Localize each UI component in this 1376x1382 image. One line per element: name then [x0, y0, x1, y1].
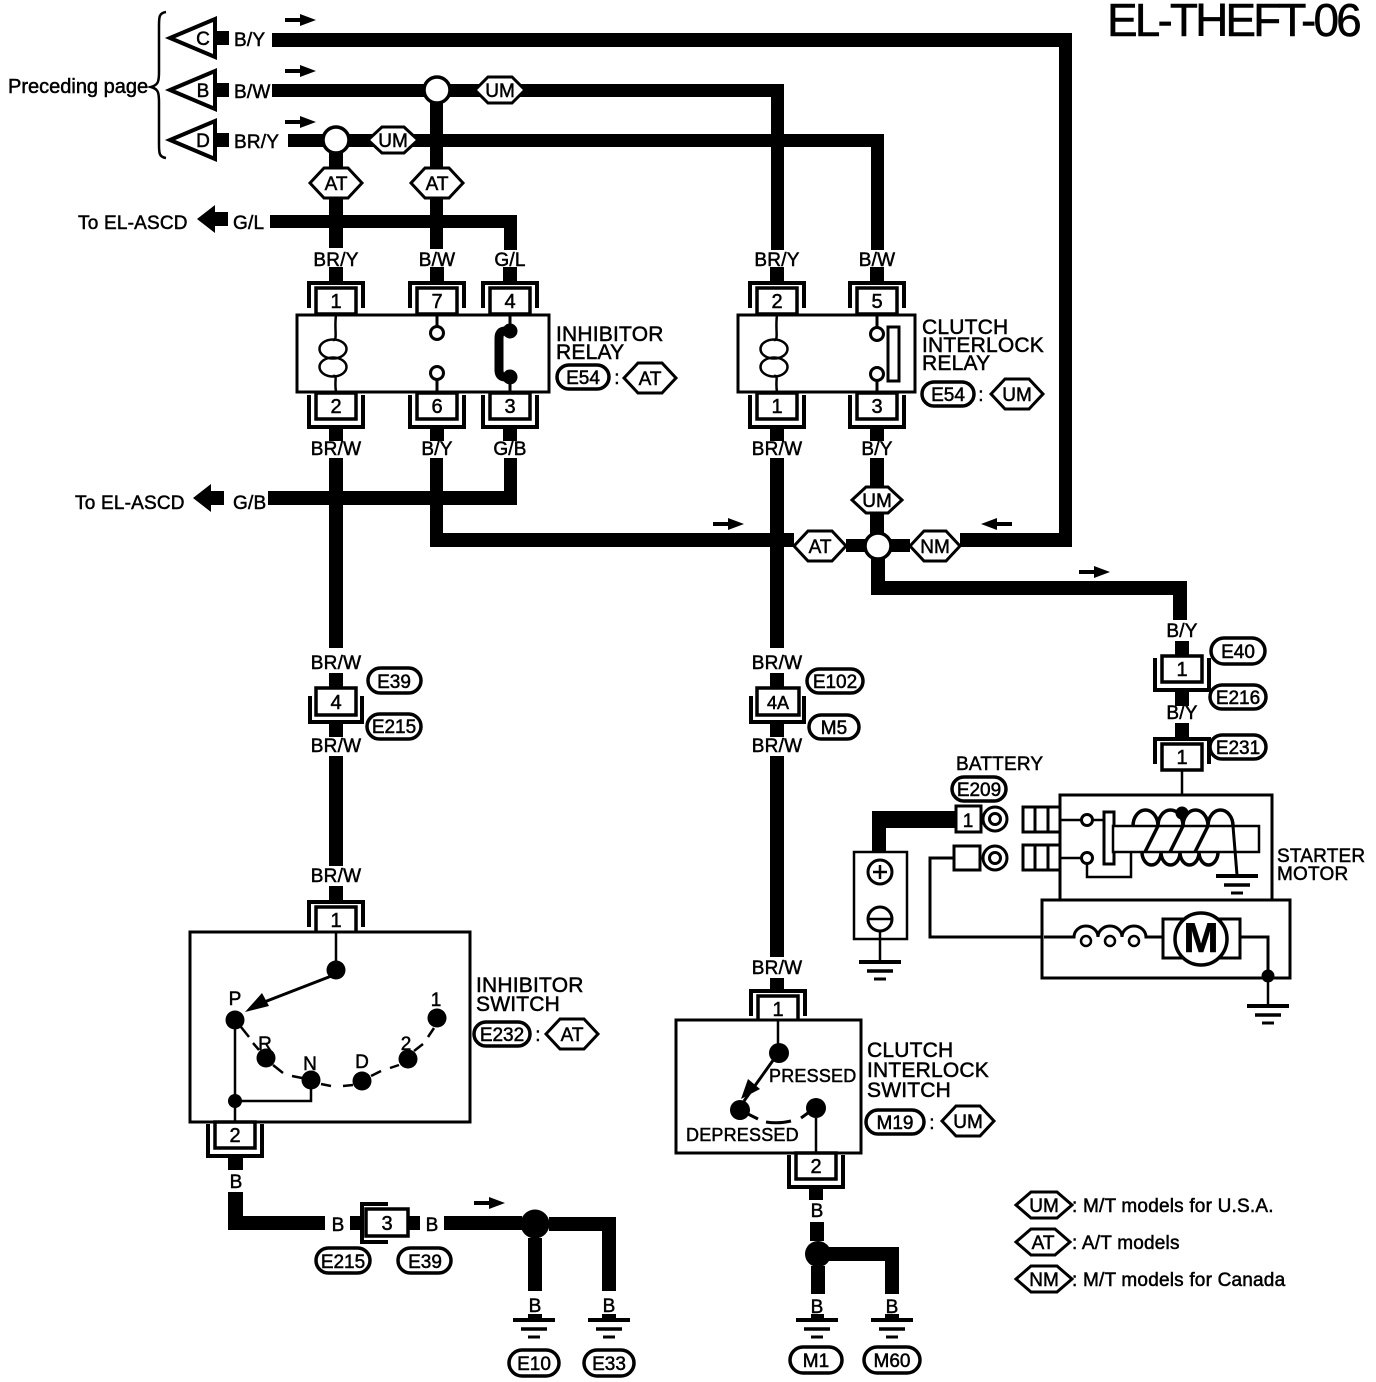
- wire BR/W vertical from clutch pin 1 to connector 4A: [770, 458, 784, 648]
- ground E33: [588, 1320, 630, 1337]
- motor output lead: [1240, 937, 1268, 975]
- svg-text:B/W: B/W: [234, 82, 271, 103]
- svg-text:3: 3: [381, 1213, 392, 1235]
- stub ground M60: [885, 1314, 899, 1321]
- tag E39 bottom: [398, 1248, 451, 1273]
- arrow on starter B/Y wire: [1079, 566, 1110, 578]
- svg-text:BR/Y: BR/Y: [234, 132, 279, 153]
- wire junction to NM: [891, 539, 910, 552]
- svg-text:AT: AT: [426, 174, 449, 195]
- svg-text:EL-THEFT-06: EL-THEFT-06: [1107, 0, 1360, 46]
- ground starter solenoid: [1216, 876, 1258, 893]
- svg-text:2: 2: [330, 396, 341, 418]
- lead battery connector 2 to motor: [930, 858, 1044, 937]
- wire battery vertical: [872, 811, 886, 858]
- svg-text:NM: NM: [920, 537, 950, 558]
- connector triangle B (from preceding page): [170, 71, 229, 109]
- stub clutch pin 2: [770, 267, 784, 283]
- svg-text:AT: AT: [1032, 1233, 1055, 1254]
- svg-text:: A/T models: : A/T models: [1072, 1233, 1180, 1254]
- inhibitor switch body: [190, 932, 470, 1122]
- ground battery: [859, 962, 901, 979]
- junction circle on wire D: [323, 127, 349, 153]
- wire BR/W to inhibitor switch: [329, 756, 343, 866]
- svg-text:B/Y: B/Y: [1166, 703, 1197, 724]
- depressed contact: [730, 1100, 750, 1120]
- svg-text:E215: E215: [321, 1252, 365, 1273]
- svg-text:3: 3: [871, 396, 882, 418]
- svg-text:E54: E54: [931, 385, 965, 406]
- wire G/B vertical from pin 3: [504, 458, 517, 505]
- svg-text:BR/W: BR/W: [311, 653, 361, 674]
- tag E232: [474, 1022, 530, 1046]
- connector 4A (E102/M5): [751, 688, 804, 722]
- wire B horizontal to connector 3: [228, 1216, 325, 1230]
- svg-text:AT: AT: [809, 537, 832, 558]
- svg-text:UM: UM: [378, 131, 408, 152]
- svg-text::: :: [614, 368, 619, 389]
- clutch switch wiper arrow: [744, 1059, 774, 1101]
- svg-text:B/Y: B/Y: [421, 439, 452, 460]
- battery negative lead: [879, 931, 882, 961]
- clutch switch output: [815, 1118, 818, 1153]
- tag E215 bottom: [316, 1248, 370, 1273]
- wire B down to M1: [811, 1266, 825, 1294]
- tag E216: [1210, 685, 1266, 709]
- wire B to ground E10: [528, 1238, 542, 1291]
- inhibitor relay pin 1: [309, 283, 363, 314]
- wire B down to M60: [885, 1247, 899, 1294]
- svg-text:D: D: [355, 1052, 369, 1073]
- wire C B/Y horizontal: [272, 33, 1072, 47]
- tag UM clutch switch: [942, 1106, 994, 1136]
- arrow to EL-ASCD G/L: [197, 205, 228, 233]
- tag UM on wire D: [368, 127, 418, 153]
- tag E54 inhibitor relay: [557, 365, 609, 389]
- stub pin 6: [430, 429, 444, 441]
- svg-text:UM: UM: [1029, 1196, 1059, 1217]
- wire BR/W to clutch switch: [770, 756, 784, 957]
- svg-text:M60: M60: [874, 1351, 911, 1372]
- connector 1 E40/E216: [1155, 656, 1209, 690]
- svg-text:BR/W: BR/W: [311, 736, 361, 757]
- inhibitor switch pin 1: [309, 902, 363, 933]
- svg-text:B/Y: B/Y: [861, 439, 892, 460]
- svg-text:BR/W: BR/W: [752, 958, 802, 979]
- svg-text:M: M: [1184, 914, 1219, 961]
- tag M1: [790, 1347, 842, 1373]
- stub ground E33: [602, 1314, 616, 1321]
- svg-text::: :: [535, 1025, 540, 1046]
- svg-text:E39: E39: [377, 672, 411, 693]
- svg-text:E54: E54: [566, 368, 600, 389]
- connector 4 (E39/E215): [310, 688, 362, 722]
- inhibitor relay coil (pins 1-2): [320, 315, 347, 392]
- stub connector 4 top: [329, 673, 343, 688]
- inhibitor relay pin 4: [483, 283, 537, 314]
- stub pin 4: [503, 267, 517, 283]
- svg-text:4: 4: [330, 692, 341, 714]
- svg-text:BATTERY: BATTERY: [956, 754, 1043, 775]
- wire UM to junction: [870, 513, 884, 535]
- stub connector 4 bottom: [329, 724, 343, 737]
- inhibitor relay closed contact pins 4-3: [499, 315, 518, 392]
- tag E215: [367, 714, 421, 739]
- svg-text:M5: M5: [821, 718, 847, 739]
- starter terminal hatched connectors: [1023, 807, 1060, 870]
- svg-text:To EL-ASCD: To EL-ASCD: [75, 493, 185, 514]
- tag UM clutch relay: [991, 379, 1043, 409]
- wire B/W vertical to inhibitor relay pin 7: [430, 103, 443, 249]
- legend NM: [1016, 1266, 1072, 1292]
- battery connector 1: [956, 806, 1007, 832]
- wire B/Y vertical to E40: [1173, 594, 1187, 620]
- clutch interlock relay pin 5: [850, 283, 904, 314]
- svg-text:1: 1: [963, 811, 974, 832]
- stub connector 3 left: [350, 1216, 363, 1230]
- stub connector 3 right: [407, 1216, 420, 1230]
- svg-text:UM: UM: [953, 1112, 983, 1133]
- wire B B/W horizontal: [272, 84, 771, 97]
- svg-text:2: 2: [229, 1125, 240, 1147]
- ground E10: [513, 1320, 555, 1337]
- tag E33: [584, 1350, 634, 1376]
- tag E39: [368, 668, 421, 693]
- stub inhibitor switch pin 1: [329, 886, 343, 901]
- tag M5: [809, 715, 859, 739]
- arrow on NM wire: [981, 518, 1012, 530]
- clutch relay contact pins 5-3: [871, 315, 900, 392]
- ground M1: [796, 1320, 838, 1337]
- svg-text:: M/T models for Canada: : M/T models for Canada: [1072, 1270, 1286, 1291]
- svg-text:BR/W: BR/W: [311, 439, 361, 460]
- arrow direction wire B: [285, 65, 316, 77]
- svg-text:To EL-ASCD: To EL-ASCD: [78, 213, 188, 234]
- stub pin 1: [329, 267, 343, 283]
- junction dot B: [521, 1210, 550, 1239]
- stub clutch pin 5: [870, 267, 884, 283]
- wire BR/W vertical from pin 2 to connector 4: [329, 458, 343, 648]
- legend AT: [1016, 1229, 1070, 1255]
- solenoid coil lower arcs: [1142, 852, 1218, 865]
- wire BR/Y vertical to inhibitor relay pin 1: [329, 153, 343, 248]
- clutch interlock relay pin 2: [750, 283, 804, 314]
- position 2: [390, 1034, 423, 1069]
- svg-text:2: 2: [771, 291, 782, 313]
- inhibitor switch wiper arrow: [254, 975, 334, 1006]
- wiring P to N to pin 2: [235, 1029, 311, 1122]
- svg-text:BR/W: BR/W: [752, 736, 802, 757]
- wire B/Y from clutch pin 3 down: [870, 458, 884, 487]
- stub ground E10: [528, 1314, 542, 1321]
- tag E10: [509, 1350, 559, 1376]
- clutch interlock relay body: [738, 315, 915, 392]
- position D: [343, 1052, 381, 1091]
- motor field coil: [1044, 926, 1163, 937]
- svg-text:PRESSED: PRESSED: [769, 1066, 856, 1086]
- svg-text:1: 1: [772, 999, 783, 1021]
- svg-text:7: 7: [431, 291, 442, 313]
- svg-text:AT: AT: [325, 174, 348, 195]
- starter motor box: [1042, 900, 1290, 978]
- svg-text:E216: E216: [1216, 688, 1260, 709]
- tag E102: [807, 669, 863, 693]
- pressed contact: [806, 1098, 826, 1118]
- svg-text:1: 1: [330, 910, 341, 932]
- svg-text:B: B: [197, 81, 210, 102]
- wire B down to ground E33: [602, 1217, 616, 1291]
- svg-text:1: 1: [431, 990, 442, 1011]
- tag AT inhibitor relay: [624, 363, 676, 393]
- stub clutch pin 1: [770, 429, 784, 441]
- svg-text:P: P: [229, 989, 242, 1010]
- tag E209: [952, 777, 1006, 801]
- inhibitor relay contact pins 7-6: [431, 315, 444, 392]
- starter solenoid box: [1060, 795, 1272, 900]
- svg-text:D: D: [196, 131, 210, 152]
- svg-text:E33: E33: [592, 1354, 626, 1375]
- svg-text:B: B: [529, 1296, 542, 1317]
- svg-text:MOTOR: MOTOR: [1277, 864, 1348, 885]
- junction circle B/Y: [865, 533, 891, 559]
- tag E40: [1211, 638, 1265, 664]
- solenoid ground lead: [1233, 826, 1237, 875]
- inhibitor relay body: [297, 315, 549, 392]
- svg-text:UM: UM: [1002, 385, 1032, 406]
- junction dot motor ground: [1262, 970, 1275, 983]
- clutch interlock switch pin 1: [751, 991, 805, 1022]
- svg-text::: :: [929, 1113, 934, 1134]
- svg-text:B/Y: B/Y: [234, 30, 265, 51]
- stub clutch pin 3: [870, 429, 884, 441]
- svg-text:G/L: G/L: [233, 213, 264, 234]
- arrow on wire B: [474, 1197, 505, 1209]
- wire B/Y vertical from pin 6: [430, 458, 443, 547]
- stub clutch switch pin 1: [770, 978, 784, 990]
- svg-text:B: B: [603, 1296, 616, 1317]
- svg-text:1: 1: [330, 291, 341, 313]
- svg-text:1: 1: [1176, 659, 1187, 681]
- wire B down: [228, 1192, 243, 1230]
- inhibitor switch common contact: [335, 932, 338, 962]
- svg-text:UM: UM: [862, 491, 892, 512]
- svg-text:B: B: [426, 1215, 439, 1236]
- stub pin 3: [503, 429, 517, 441]
- solenoid coil crossing legs: [1145, 826, 1208, 852]
- position R: [253, 1034, 283, 1073]
- battery body: [854, 852, 907, 939]
- svg-text::: :: [978, 385, 983, 406]
- wire B/Y horizontal to AT: [430, 533, 794, 547]
- svg-text:B/Y: B/Y: [1166, 621, 1197, 642]
- svg-text:NM: NM: [1029, 1270, 1059, 1291]
- svg-text:E232: E232: [480, 1025, 524, 1046]
- starter terminal circles: [1082, 815, 1093, 864]
- stub E231: [1175, 723, 1189, 738]
- svg-text:DEPRESSED: DEPRESSED: [686, 1125, 799, 1145]
- brace: [151, 12, 166, 158]
- wire G/L vertical to pin 4: [504, 228, 517, 250]
- svg-text:: M/T models for U.S.A.: : M/T models for U.S.A.: [1072, 1196, 1274, 1217]
- tag UM on wire B: [475, 77, 525, 103]
- clutch relay pin 3: [850, 393, 904, 427]
- junction dot solenoid feed: [1176, 807, 1189, 820]
- svg-text:B: B: [332, 1215, 345, 1236]
- svg-text:C: C: [196, 29, 210, 50]
- connector triangle D (from preceding page): [170, 121, 229, 159]
- tag AT inhibitor switch: [546, 1019, 598, 1049]
- ground starter motor: [1247, 1006, 1289, 1023]
- svg-text:4: 4: [504, 291, 515, 313]
- svg-text:Preceding page: Preceding page: [8, 76, 148, 98]
- tag AT on B/W drop: [411, 168, 463, 198]
- stub below E40 connector: [1175, 690, 1189, 706]
- lead from E231 to starter solenoid: [1181, 770, 1184, 826]
- stub to junction M: [810, 1222, 824, 1241]
- arrow to EL-ASCD G/B: [193, 484, 224, 512]
- svg-text:SWITCH: SWITCH: [867, 1079, 951, 1102]
- position 1: [428, 990, 447, 1037]
- wire C B/Y vertical right: [1059, 33, 1072, 547]
- stub pin 2: [329, 429, 343, 441]
- connector triangle C (from preceding page): [170, 19, 229, 57]
- svg-text:BR/W: BR/W: [752, 653, 802, 674]
- clutch interlock switch body: [676, 1020, 861, 1153]
- wire junction down: [871, 559, 885, 582]
- wire D BR/Y horizontal: [288, 134, 871, 147]
- svg-text:B: B: [811, 1201, 824, 1222]
- svg-text:AT: AT: [639, 369, 662, 390]
- stub connector 4A bottom: [770, 724, 784, 737]
- battery connector 2: [954, 846, 1007, 870]
- wire AT to junction: [846, 539, 865, 552]
- tag M60: [864, 1347, 920, 1373]
- svg-text:3: 3: [504, 396, 515, 418]
- svg-text:E39: E39: [408, 1252, 442, 1273]
- svg-text:B: B: [230, 1172, 243, 1193]
- stub ground M1: [811, 1314, 824, 1321]
- svg-text:BR/W: BR/W: [311, 866, 361, 887]
- svg-text:AT: AT: [561, 1025, 584, 1046]
- junction dot B clutch: [805, 1241, 831, 1267]
- svg-text:RELAY: RELAY: [556, 341, 624, 364]
- wire B right from clutch junction: [829, 1247, 899, 1261]
- svg-text:6: 6: [431, 396, 442, 418]
- wire G/L horizontal: [270, 215, 517, 228]
- wire B right from junction: [549, 1217, 616, 1231]
- dashed throw arc: [748, 1113, 808, 1123]
- junction circle on wire B: [424, 77, 450, 103]
- svg-text:1: 1: [771, 396, 782, 418]
- tag NM right of junction: [910, 531, 960, 561]
- svg-text:BR/W: BR/W: [752, 439, 802, 460]
- clutch switch common: [777, 1020, 780, 1044]
- tag UM above junction: [852, 487, 902, 513]
- tag E231: [1210, 735, 1266, 759]
- inhibitor relay pin 7: [410, 283, 464, 314]
- motor M symbol: [1163, 913, 1240, 965]
- inhibitor switch pin 2: [208, 1122, 262, 1156]
- legend UM: [1016, 1192, 1072, 1218]
- svg-text:4A: 4A: [767, 693, 789, 713]
- svg-text:2: 2: [810, 1156, 821, 1178]
- wire battery to connector 1: [872, 811, 956, 828]
- stub E40: [1175, 641, 1189, 657]
- svg-text:5: 5: [871, 291, 882, 313]
- svg-text:E102: E102: [813, 672, 857, 693]
- svg-text:M1: M1: [803, 1351, 829, 1372]
- svg-text:E231: E231: [1216, 738, 1260, 759]
- wire NM to C vertical: [960, 533, 1072, 547]
- wire B vertical to clutch relay pin 2: [771, 84, 784, 250]
- svg-text:UM: UM: [485, 81, 515, 102]
- svg-text:E40: E40: [1221, 642, 1255, 663]
- svg-text:1: 1: [1176, 747, 1187, 769]
- stub connector 4A top: [770, 673, 784, 688]
- inhibitor relay pin 6: [410, 393, 464, 427]
- arrow direction wire D: [285, 116, 316, 128]
- wire D vertical to clutch relay pin 5: [871, 134, 884, 250]
- position P: [226, 989, 250, 1037]
- svg-text:E10: E10: [517, 1354, 551, 1375]
- tag E54 clutch relay: [922, 382, 974, 406]
- wire B to junction: [444, 1216, 522, 1230]
- svg-text:RELAY: RELAY: [922, 352, 990, 375]
- stub inhibitor switch pin 2: [228, 1156, 243, 1170]
- svg-text:E209: E209: [957, 780, 1001, 801]
- tag M19: [866, 1110, 924, 1134]
- tag AT left of junction: [794, 531, 846, 561]
- svg-text:G/B: G/B: [493, 439, 526, 460]
- solenoid coil upper arcs: [1133, 810, 1233, 826]
- clutch switch pin 2: [789, 1153, 843, 1187]
- connector 3 (E215/E39): [362, 1204, 408, 1242]
- arrow direction wire C: [285, 14, 316, 26]
- wire B/Y to starter horizontal: [871, 581, 1187, 595]
- svg-text:G/B: G/B: [233, 493, 266, 514]
- wire G/B horizontal: [268, 491, 517, 505]
- position N: [292, 1054, 331, 1090]
- stub clutch switch pin 2: [809, 1187, 823, 1200]
- starter contact plate: [1104, 812, 1114, 864]
- solenoid plunger: [1113, 826, 1259, 852]
- tag AT on BR/Y drop: [310, 168, 362, 198]
- inhibitor relay pin 3: [483, 393, 537, 427]
- stub pin 7: [430, 267, 444, 283]
- ground M60: [871, 1320, 913, 1337]
- svg-text:SWITCH: SWITCH: [476, 993, 560, 1016]
- clutch relay pin 1: [750, 393, 804, 427]
- connector 1 E231: [1155, 739, 1209, 770]
- svg-text:M19: M19: [877, 1113, 914, 1134]
- inhibitor relay pin 2: [309, 393, 363, 427]
- svg-text:E215: E215: [372, 717, 416, 738]
- link lower terminal to plunger: [1087, 853, 1131, 877]
- arrow on B/Y wire: [713, 518, 744, 530]
- clutch relay coil (pins 2-1): [761, 315, 788, 392]
